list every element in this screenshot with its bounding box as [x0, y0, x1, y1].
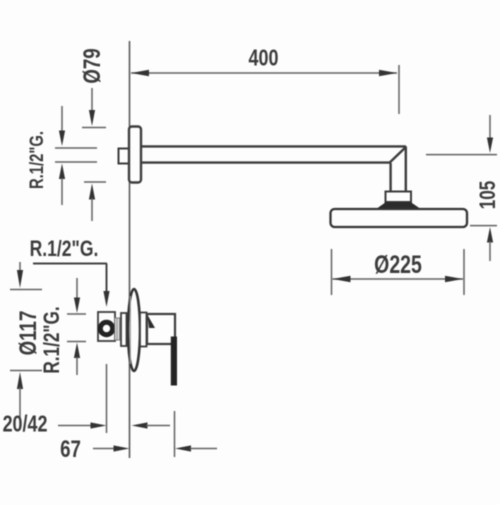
valve body block: [121, 313, 127, 346]
svg-text:67: 67: [60, 436, 81, 463]
lever handle bar (dark): [171, 337, 177, 386]
dimension Ø117 (escutcheon): [10, 262, 42, 417]
wall line: [129, 41, 131, 458]
svg-text:105: 105: [476, 181, 500, 210]
svg-text:Ø225: Ø225: [374, 251, 422, 279]
lever mount block: [140, 313, 147, 347]
shower arm horizontal tube: [141, 146, 406, 162]
label R.1/2"G. (valve inlet): [30, 237, 99, 262]
svg-text:Ø117: Ø117: [15, 311, 42, 356]
leader from R.1/2"G. to valve: [33, 264, 110, 308]
dimension Ø79 (flange): [82, 88, 106, 221]
shower head collar nut: [386, 192, 412, 203]
dimension R.1/2"G. valve arrows: [67, 278, 86, 375]
dimension Ø79 text: [79, 48, 106, 83]
dimension R.1/2"G. top rotated text: [26, 131, 47, 189]
valve knob housing: [98, 312, 115, 341]
dimension 67: [93, 411, 217, 457]
dimension 20/42: [58, 364, 170, 433]
dimension Ø225 text: [374, 251, 422, 279]
dimension 105: [426, 115, 497, 261]
shower head plate: [331, 209, 468, 227]
dimension Ø117 rotated text: [15, 311, 42, 356]
lever body: [147, 314, 175, 344]
dimension 20/42 text: [3, 411, 48, 437]
valve knob ring: [100, 322, 112, 334]
dimension 67 text: [60, 436, 81, 463]
svg-text:R.1/2"G.: R.1/2"G.: [26, 131, 47, 189]
dimension 105 rotated text: [476, 181, 500, 210]
dimension R.1/2"G. (arm pipe): [55, 106, 97, 205]
wall nub (arm supply stub): [119, 149, 130, 164]
shower arm flange: [129, 127, 141, 183]
dimension Ø225: [332, 249, 465, 295]
arm elbow and vertical drop pipe: [390, 146, 406, 192]
escutcheon plate (side view): [128, 289, 140, 371]
svg-text:R.1/2"G.: R.1/2"G.: [30, 237, 99, 262]
svg-text:400: 400: [249, 45, 279, 71]
svg-text:Ø79: Ø79: [79, 48, 106, 83]
dimension 400 text: [249, 45, 279, 71]
svg-text:20/42: 20/42: [3, 411, 48, 437]
dimension 400 line: [131, 65, 399, 114]
valve threaded nipple: [115, 318, 121, 340]
shower head hub (dark): [376, 202, 422, 210]
dimension R.1/2"G. (valve connection) rotated text: [40, 306, 65, 373]
svg-text:R.1/2"G.: R.1/2"G.: [40, 306, 65, 373]
